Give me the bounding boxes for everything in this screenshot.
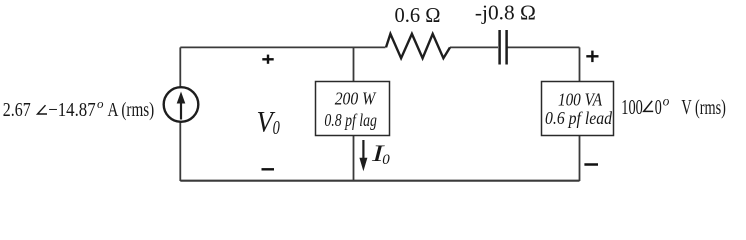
svg-text:0.6 Ω: 0.6 Ω — [395, 3, 441, 27]
capacitor -j0.8 ohm plates — [498, 30, 501, 65]
wire: top side, left corner to resistor — [180, 46, 385, 48]
current I0 arrow — [362, 140, 364, 160]
svg-text:0.6 pf lead: 0.6 pf lead — [545, 108, 612, 128]
wire: right side vertical — [579, 47, 581, 181]
svg-text:-j0.8 Ω: -j0.8 Ω — [475, 0, 536, 24]
minus sign V0 — [262, 168, 275, 170]
wire: capacitor to top-right corner — [506, 46, 579, 48]
wire: bottom side — [180, 180, 579, 182]
svg-text:V (rms): V (rms) — [681, 95, 726, 119]
svg-text:0: 0 — [382, 152, 390, 168]
svg-text:0.8 pf lag: 0.8 pf lag — [324, 110, 377, 130]
svg-text:0: 0 — [655, 95, 662, 119]
svg-text:0: 0 — [273, 117, 280, 139]
wire: resistor to capacitor — [450, 46, 498, 48]
wire: left side vertical — [179, 47, 181, 181]
current source arrow — [180, 101, 182, 120]
resistor 0.6 ohm zigzag — [386, 34, 450, 58]
angle symbol right — [644, 101, 654, 112]
load box 200 W 0.8 pf lag — [316, 82, 390, 136]
svg-text:−14.87: −14.87 — [48, 99, 95, 121]
wire: middle branch vertical — [353, 47, 355, 181]
svg-text:A (rms): A (rms) — [108, 99, 155, 121]
svg-text:o: o — [97, 96, 104, 111]
svg-text:100: 100 — [621, 95, 643, 119]
svg-text:2.67: 2.67 — [3, 99, 31, 121]
load box 100 VA 0.6 pf lead — [542, 82, 614, 136]
svg-text:200 W: 200 W — [335, 88, 377, 108]
svg-text:o: o — [663, 94, 670, 109]
svg-text:100 VA: 100 VA — [558, 90, 602, 110]
angle symbol left — [38, 105, 48, 114]
current source I1 circle — [164, 87, 199, 122]
plus sign V0 — [262, 58, 273, 60]
plus sign right — [586, 55, 598, 57]
minus sign right — [584, 163, 598, 166]
